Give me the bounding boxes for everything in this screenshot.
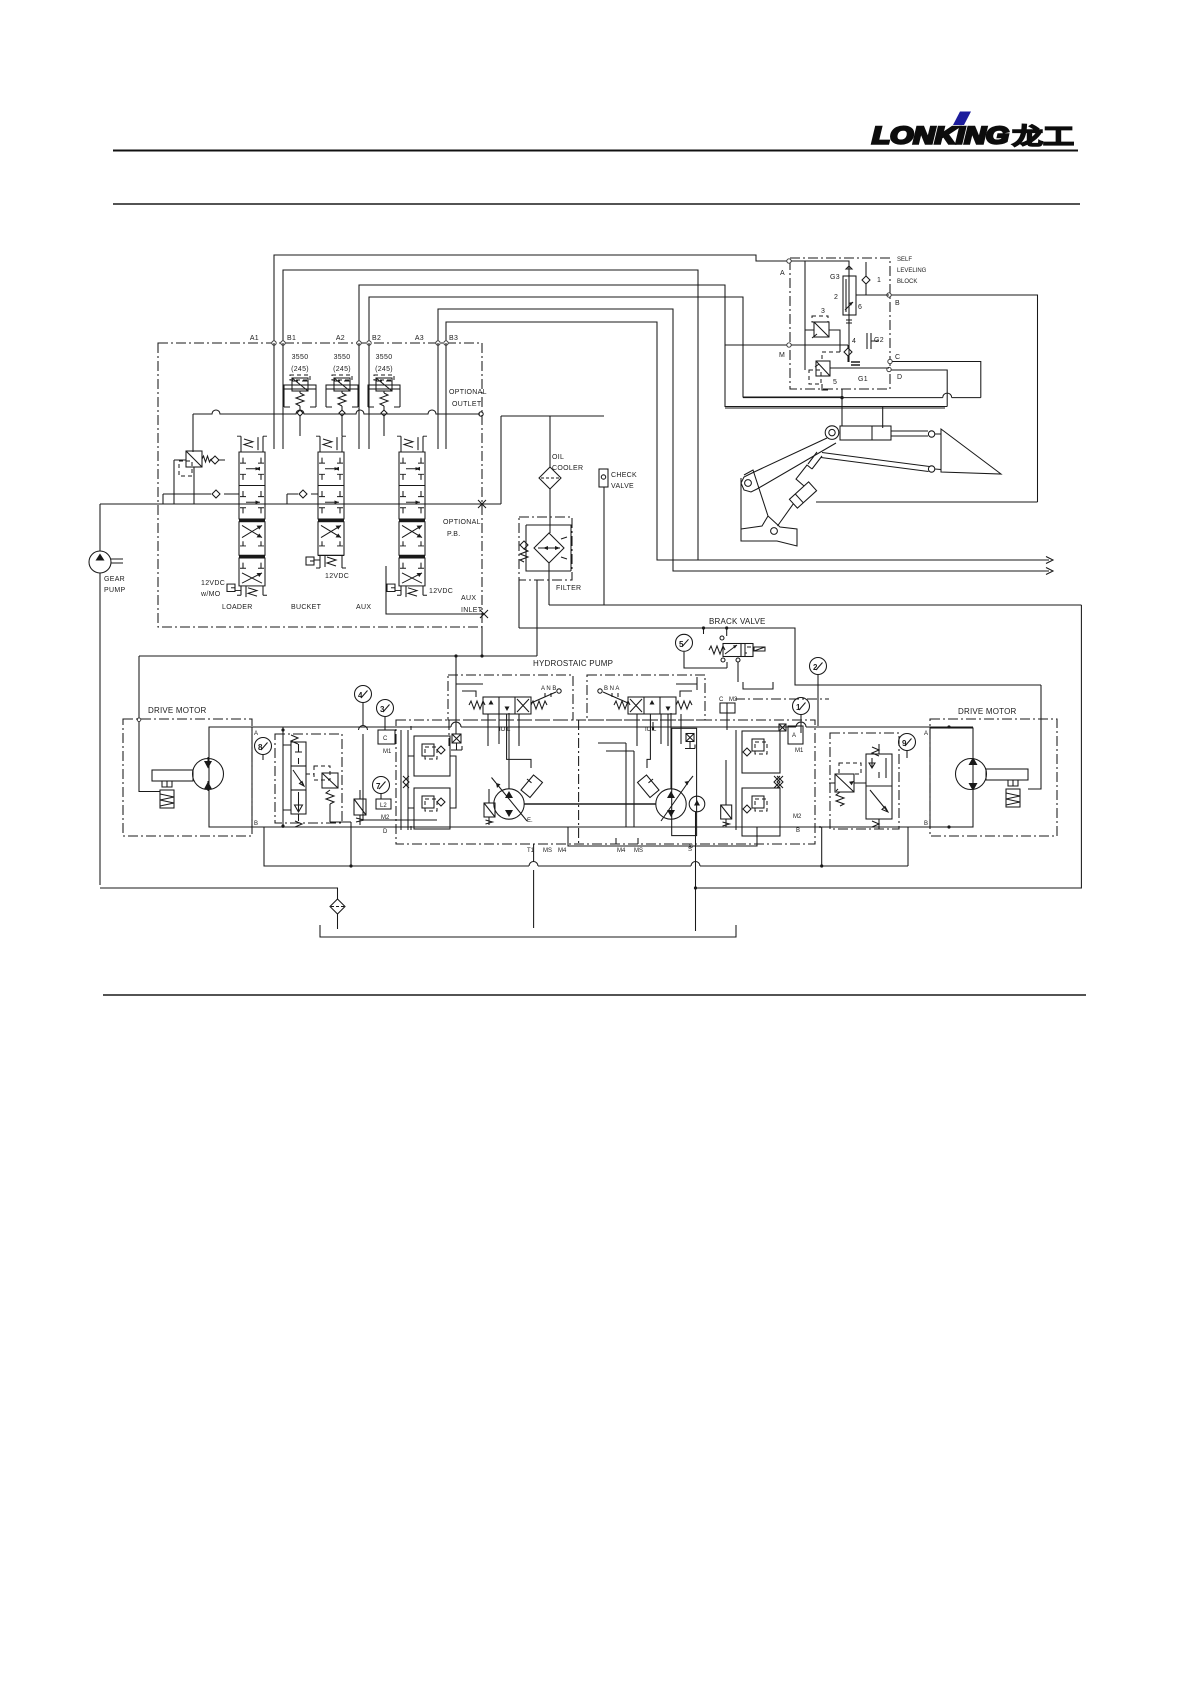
svg-text:D: D [897,374,902,381]
svg-text:2: 2 [834,294,838,301]
svg-text:D: D [383,829,388,835]
svg-text:3: 3 [380,705,385,714]
svg-text:M4: M4 [558,848,567,854]
svg-text:BUCKET: BUCKET [291,604,322,611]
svg-text:B: B [254,821,258,827]
svg-text:12VDC: 12VDC [325,573,349,580]
svg-text:OPTIONAL: OPTIONAL [443,519,481,526]
svg-text:M1: M1 [383,749,392,755]
svg-text:B: B [924,821,928,827]
svg-text:AUX: AUX [356,604,371,611]
svg-text:1: 1 [877,277,881,284]
svg-text:M4: M4 [617,848,626,854]
svg-text:C: C [383,736,388,742]
svg-text:PUMP: PUMP [104,587,125,594]
svg-text:(245): (245) [375,366,393,373]
svg-text:P.B.: P.B. [447,531,461,538]
svg-text:B2: B2 [372,335,381,342]
svg-text:A: A [780,270,785,277]
svg-text:T1: T1 [527,848,535,854]
svg-text:12VDC: 12VDC [201,580,225,587]
svg-text:A3: A3 [415,335,424,342]
svg-text:G2: G2 [874,337,884,344]
svg-text:A: A [924,731,928,737]
svg-text:B N A: B N A [604,686,619,692]
svg-text:BLOCK: BLOCK [897,279,917,285]
svg-text:A1: A1 [250,335,259,342]
svg-text:(245): (245) [291,366,309,373]
svg-text:INLET: INLET [461,607,483,614]
svg-text:HYDROSTAIC PUMP: HYDROSTAIC PUMP [533,659,613,668]
svg-text:OUTLET: OUTLET [452,401,482,408]
svg-text:DRIVE MOTOR: DRIVE MOTOR [148,706,207,715]
svg-text:OPTIONAL: OPTIONAL [449,389,487,396]
svg-text:E.: E. [527,818,533,824]
svg-text:M2: M2 [381,815,390,821]
svg-text:3550: 3550 [334,354,351,361]
svg-text:SELF: SELF [897,257,912,263]
svg-text:M: M [779,352,785,359]
svg-text:G1: G1 [858,376,868,383]
svg-text:(245): (245) [333,366,351,373]
svg-text:A2: A2 [336,335,345,342]
svg-text:8: 8 [258,743,263,752]
svg-text:FILTER: FILTER [556,585,581,592]
svg-text:OIL: OIL [552,454,564,461]
svg-text:B: B [895,300,900,307]
svg-text:A: A [792,733,796,739]
svg-text:C: C [895,354,900,361]
svg-text:9: 9 [902,739,907,748]
svg-text:S: S [689,844,693,850]
svg-text:1: 1 [796,703,801,712]
svg-text:2: 2 [813,663,818,672]
svg-text:12VDC: 12VDC [429,588,453,595]
svg-text:L2: L2 [380,803,387,809]
svg-text:M1: M1 [795,748,804,754]
svg-text:5: 5 [833,379,837,386]
svg-text:C: C [719,697,724,703]
svg-text:LOADER: LOADER [222,604,253,611]
svg-text:G3: G3 [830,274,840,281]
svg-text:LEVELING: LEVELING [897,268,927,274]
svg-text:5: 5 [679,640,684,649]
svg-text:A N B: A N B [541,686,556,692]
svg-text:B: B [796,828,800,834]
svg-text:4: 4 [358,691,363,700]
svg-text:M3: M3 [729,697,738,703]
svg-text:3550: 3550 [292,354,309,361]
svg-text:B3: B3 [449,335,458,342]
svg-text:3550: 3550 [376,354,393,361]
svg-text:6: 6 [858,304,862,311]
svg-text:GEAR: GEAR [104,576,125,583]
svg-text:VALVE: VALVE [611,483,634,490]
svg-text:4: 4 [852,338,856,345]
svg-text:IOIL: IOIL [645,727,657,733]
svg-text:DRIVE MOTOR: DRIVE MOTOR [958,707,1017,716]
svg-text:3: 3 [821,308,825,315]
svg-text:w/MO: w/MO [200,591,221,598]
svg-text:CHECK: CHECK [611,472,637,479]
svg-text:M2: M2 [793,814,802,820]
svg-text:COOLER: COOLER [552,465,583,472]
svg-text:A: A [254,731,258,737]
svg-text:LONKING: LONKING [872,123,1009,150]
svg-text:B1: B1 [287,335,296,342]
svg-text:MS: MS [543,848,552,854]
svg-text:龙工: 龙工 [1012,123,1074,149]
svg-text:AUX: AUX [461,595,476,602]
svg-text:BRACK VALVE: BRACK VALVE [709,617,766,626]
svg-text:MS: MS [634,848,643,854]
svg-text:7: 7 [376,782,381,791]
